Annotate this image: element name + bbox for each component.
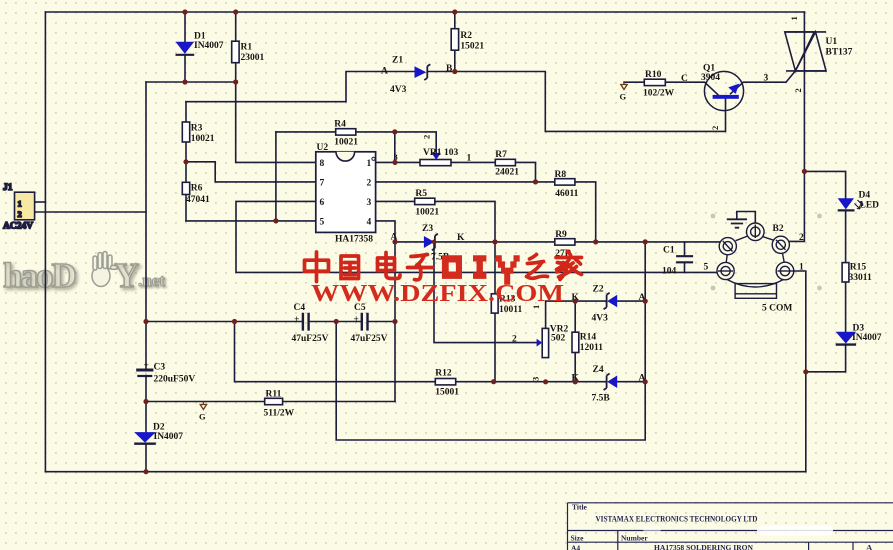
svg-text:R14: R14 — [580, 333, 597, 343]
triac U1 BT137 — [785, 16, 853, 92]
svg-text:1: 1 — [789, 16, 799, 20]
wire Z1 cathode to R2 — [428, 71, 455, 73]
wire B net to Q1 — [455, 72, 726, 132]
wire C1 stubs — [684, 242, 686, 273]
svg-text:D1: D1 — [194, 32, 206, 42]
svg-text:1: 1 — [467, 154, 472, 164]
wire J1 pin1 — [35, 201, 46, 203]
node loop top — [334, 319, 339, 324]
node pin5 branch — [273, 218, 278, 223]
resistor R12 — [435, 369, 459, 398]
svg-text:15021: 15021 — [460, 42, 484, 52]
svg-text:VR1: VR1 — [423, 148, 442, 158]
svg-text:7.5B: 7.5B — [592, 394, 611, 404]
svg-text:1: 1 — [799, 263, 804, 273]
svg-text:Y: Y — [114, 256, 139, 295]
svg-text:A: A — [866, 543, 873, 550]
svg-text:7: 7 — [320, 179, 325, 189]
svg-text:LED: LED — [860, 201, 880, 211]
svg-text:47041: 47041 — [186, 195, 210, 205]
svg-text:502: 502 — [551, 334, 566, 344]
svg-text:2: 2 — [422, 135, 432, 139]
wire R12 row — [235, 322, 646, 382]
capacitor C5 — [351, 303, 388, 344]
svg-text:K: K — [457, 233, 465, 243]
svg-text:12011: 12011 — [580, 343, 603, 353]
svg-text:10021: 10021 — [415, 208, 439, 218]
wire bottom bus — [45, 471, 805, 473]
svg-text:15001: 15001 — [435, 388, 459, 398]
node Z2 anode — [643, 299, 648, 304]
svg-text:2: 2 — [512, 335, 517, 345]
zener Z4 7.5B — [572, 365, 646, 404]
svg-text:R8: R8 — [555, 170, 567, 180]
node R4 wiper — [392, 129, 397, 134]
svg-text:Q1: Q1 — [703, 64, 715, 74]
connector J1 — [3, 183, 35, 232]
wire right loop column x645 — [336, 242, 645, 440]
wire Z2 row — [546, 301, 646, 328]
diode D1 IN4007 — [176, 32, 224, 55]
svg-text:104: 104 — [662, 267, 677, 277]
svg-text:HA17358 SOLDERING IRON: HA17358 SOLDERING IRON — [654, 543, 754, 550]
wire J1 pin2 — [35, 211, 146, 213]
wire AC bus upper — [145, 82, 147, 369]
node R13 top — [492, 239, 497, 244]
svg-text:47uF25V: 47uF25V — [292, 334, 329, 344]
node R8-R9 — [593, 239, 598, 244]
node R3-R6 — [183, 159, 188, 164]
node VR2 bottom — [543, 379, 548, 384]
svg-text:3904: 3904 — [701, 73, 720, 83]
svg-text:G: G — [620, 92, 627, 102]
resistor R13 — [491, 294, 522, 315]
svg-text:A: A — [381, 67, 388, 77]
node R2 top — [452, 9, 457, 14]
svg-text:10021: 10021 — [191, 134, 215, 144]
svg-text:D2: D2 — [153, 423, 165, 433]
wire D1 leads — [184, 12, 186, 82]
potentiometer VR1 103 — [394, 135, 472, 166]
svg-text:IN4007: IN4007 — [852, 333, 882, 343]
wire pin6 net — [236, 201, 717, 272]
wire AC bus lower — [145, 444, 147, 472]
resistor R8 — [555, 170, 579, 199]
power flag G at R11 — [199, 402, 207, 422]
wire pin8 net — [236, 82, 316, 162]
node right column top — [643, 239, 648, 244]
wire pin5 net — [186, 220, 316, 222]
svg-text:HA17358: HA17358 — [335, 235, 373, 245]
svg-text:3: 3 — [367, 198, 372, 208]
wire pin1 row — [376, 132, 536, 182]
svg-text:Z2: Z2 — [593, 285, 604, 295]
svg-text:+: + — [354, 315, 359, 325]
watermark red DIY block letters — [442, 255, 520, 285]
wire R4 leads — [276, 131, 395, 133]
watermark red chinese row — [305, 252, 582, 282]
ground — [727, 212, 756, 228]
node R13 bottom — [491, 379, 496, 384]
watermark haoDIY.net — [3, 252, 165, 296]
wire node column x395 — [394, 242, 396, 402]
svg-text:Number: Number — [621, 534, 648, 543]
zener Z1 4V3 — [381, 56, 453, 96]
svg-text:Z1: Z1 — [392, 56, 403, 66]
node C5 right — [392, 319, 397, 324]
svg-text:D3: D3 — [853, 324, 865, 334]
svg-text:R12: R12 — [435, 369, 452, 379]
svg-text:Z3: Z3 — [422, 224, 433, 234]
resistor R6 — [182, 182, 210, 205]
node Z3 cathode — [432, 240, 437, 245]
resistor R7 — [495, 150, 519, 178]
wire pin7 net — [186, 162, 316, 182]
svg-text:U2: U2 — [317, 143, 329, 153]
svg-text:103: 103 — [444, 148, 459, 158]
white smudges — [643, 526, 833, 536]
svg-text:.net: .net — [138, 271, 165, 290]
svg-text:23001: 23001 — [241, 53, 265, 63]
svg-text:C1: C1 — [663, 246, 675, 256]
svg-text:B2: B2 — [773, 224, 784, 234]
svg-text:R1: R1 — [241, 43, 253, 53]
node R1 top — [233, 9, 238, 14]
potentiometer VR2 502 — [512, 305, 569, 381]
svg-text:C4: C4 — [294, 303, 306, 313]
svg-text:24021: 24021 — [495, 168, 519, 178]
svg-text:R7: R7 — [495, 150, 507, 160]
svg-text:BT137: BT137 — [826, 48, 853, 58]
svg-text:+: + — [144, 361, 149, 371]
connector B2 5COM — [704, 223, 805, 314]
svg-text:2: 2 — [18, 209, 22, 219]
diode D3 IN4007 — [836, 324, 882, 345]
node R14 bottom — [573, 379, 578, 384]
resistor R11 — [264, 390, 295, 419]
svg-text:3: 3 — [764, 74, 769, 84]
wire B2 pin1 down — [795, 271, 806, 472]
capacitor C1 — [662, 246, 693, 277]
svg-text:5: 5 — [320, 218, 325, 228]
capacitor C3 — [136, 361, 195, 385]
wire R10 row — [624, 81, 705, 83]
svg-text:5: 5 — [704, 263, 709, 273]
wire rectified row — [146, 81, 236, 83]
svg-text:IN4007: IN4007 — [154, 432, 184, 442]
wire R4 branch column — [275, 132, 277, 221]
wire R8 to R9 column — [575, 182, 596, 242]
node AC bus cap row — [143, 319, 148, 324]
svg-text:R4: R4 — [334, 120, 346, 130]
svg-text:R5: R5 — [415, 189, 427, 199]
wire VR2 input — [434, 242, 537, 343]
svg-text:C: C — [681, 74, 688, 84]
node triac branch — [802, 169, 807, 174]
wire C4 C5 row — [146, 321, 395, 323]
svg-text:haoD: haoD — [3, 256, 75, 295]
node D2 bottom — [143, 469, 148, 474]
resistor R2 — [451, 29, 484, 52]
node pin1 — [392, 160, 397, 165]
svg-text:2: 2 — [367, 179, 372, 189]
svg-text:D4: D4 — [859, 191, 871, 201]
diode D2 IN4007 — [134, 423, 183, 444]
svg-text:Z4: Z4 — [593, 365, 604, 375]
resistor R4 — [334, 120, 358, 148]
svg-text:4: 4 — [367, 218, 372, 228]
zener Z3 7.5B — [391, 224, 466, 263]
node AC bus R11 row — [143, 399, 148, 404]
resistor R1 — [232, 41, 265, 63]
resistor R14 — [572, 332, 603, 353]
zener Z2 4V3 — [572, 285, 646, 324]
svg-text:B: B — [446, 64, 453, 74]
wire pin2 row — [376, 181, 555, 183]
wire top bus — [45, 11, 804, 13]
svg-text:VISTAMAX ELECTRONICS TECHNOLOG: VISTAMAX ELECTRONICS TECHNOLOGY LTD — [596, 515, 758, 524]
svg-text:R10: R10 — [645, 70, 662, 80]
node R14 top — [573, 299, 578, 304]
resistor R5 — [415, 189, 440, 218]
wire Q1 collector to triac gate — [743, 71, 795, 82]
node B — [452, 69, 457, 74]
svg-text:Title: Title — [572, 503, 588, 512]
wire AC bus mid — [145, 376, 147, 433]
op-amp U2 HA17358 — [316, 143, 376, 245]
svg-text:1: 1 — [18, 199, 22, 209]
resistor R9 — [555, 230, 575, 259]
svg-text:3: 3 — [531, 377, 541, 381]
svg-text:R6: R6 — [191, 184, 203, 194]
node D1 top — [182, 9, 187, 14]
capacitor C4 — [292, 303, 329, 344]
node D3 return — [803, 369, 808, 374]
resistor R10 — [643, 70, 675, 99]
wire left frame — [44, 12, 46, 472]
svg-text:47uF25V: 47uF25V — [351, 334, 388, 344]
svg-text:102/2W: 102/2W — [643, 89, 675, 99]
power flag G at R10 — [620, 82, 628, 101]
node Z4 anode — [643, 379, 648, 384]
wire VR1 wiper link — [395, 132, 436, 154]
node C4 left — [232, 319, 237, 324]
svg-text:R15: R15 — [850, 263, 867, 273]
svg-text:G: G — [199, 412, 206, 422]
svg-text:J1: J1 — [3, 183, 13, 193]
svg-text:6: 6 — [320, 198, 325, 208]
wire R1 leads — [235, 12, 237, 82]
node pin2 R7 — [533, 179, 538, 184]
svg-text:220uF50V: 220uF50V — [154, 375, 196, 385]
wire R11 row — [146, 401, 395, 403]
svg-text:33011: 33011 — [849, 273, 872, 283]
svg-text:1: 1 — [367, 159, 372, 169]
wire pin4 to Z3 — [376, 221, 424, 242]
svg-text:U1: U1 — [826, 37, 838, 47]
svg-text:4V3: 4V3 — [390, 85, 407, 95]
svg-text:Size: Size — [571, 534, 585, 543]
svg-text:WWW.DZFIX.COM: WWW.DZFIX.COM — [311, 280, 564, 307]
svg-text:2: 2 — [793, 88, 803, 92]
svg-text:C3: C3 — [154, 363, 166, 373]
wire K row — [434, 241, 719, 243]
svg-text:5 COM: 5 COM — [762, 304, 792, 314]
wire R3-R6 column — [185, 102, 187, 221]
LED D4 — [838, 191, 879, 211]
node R1 bottom — [233, 79, 238, 84]
svg-text:IN4007: IN4007 — [194, 41, 224, 51]
svg-text:46011: 46011 — [555, 189, 578, 199]
wire pin3 row R5 R13 column — [376, 201, 495, 381]
wire R2 leads — [454, 12, 456, 72]
resistor R3 — [182, 122, 215, 144]
wire D4 branch — [804, 171, 845, 371]
wire zener Z1 feed — [186, 72, 415, 102]
svg-text:AC24V: AC24V — [3, 222, 33, 232]
svg-text:A4: A4 — [571, 544, 580, 550]
svg-text:R2: R2 — [460, 31, 472, 41]
svg-text:R11: R11 — [266, 390, 282, 400]
node Z3 anode — [392, 239, 397, 244]
svg-text:511/2W: 511/2W — [264, 409, 295, 419]
transistor Q1 3904 — [681, 64, 769, 131]
svg-text:2: 2 — [710, 126, 720, 130]
svg-text:4V3: 4V3 — [592, 314, 609, 324]
svg-text:2: 2 — [799, 233, 804, 243]
svg-text:8: 8 — [320, 159, 325, 169]
title block — [568, 503, 893, 550]
svg-text:R3: R3 — [191, 124, 203, 134]
resistor R15 — [842, 263, 872, 284]
wire R14 leads — [574, 301, 576, 382]
svg-text:+: + — [294, 315, 299, 325]
wire B2 pin2 to triac — [790, 12, 805, 241]
svg-text:R9: R9 — [555, 230, 567, 240]
node D1 cathode — [182, 79, 187, 84]
svg-text:10021: 10021 — [334, 138, 358, 148]
